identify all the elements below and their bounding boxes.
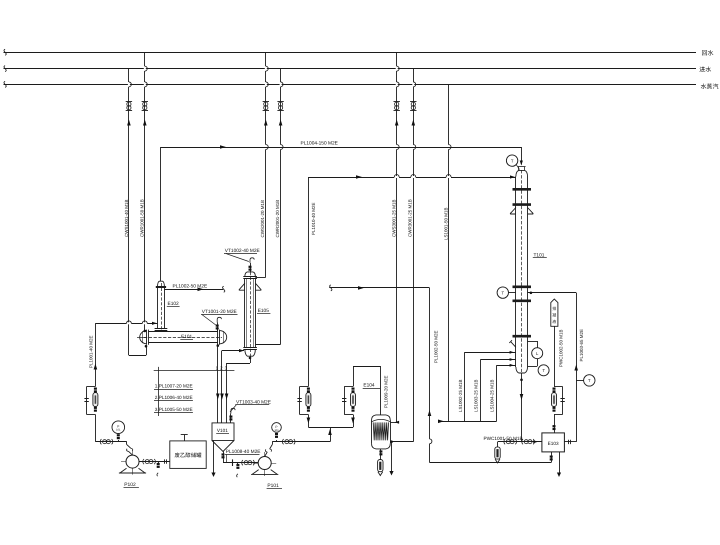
E102 top dome — [158, 281, 165, 287]
temperature instrument TI on PL1003 — [576, 380, 583, 382]
flow arrow into E103 — [533, 440, 538, 443]
steam riser LS1002 — [464, 352, 466, 421]
flow arrow feed line — [356, 175, 362, 179]
vessel V101 body — [212, 423, 234, 441]
svg-text:PL1001-40 M2E: PL1001-40 M2E — [89, 335, 94, 368]
pipe line 3 from E105 bottom — [226, 363, 228, 423]
svg-text:液: 液 — [552, 319, 556, 324]
V101 side drain to grade — [213, 441, 215, 475]
svg-text:E104: E104 — [363, 383, 375, 389]
pipe PL1002 drop x=429.5 — [429, 288, 431, 463]
rotameter FI on PL1009 — [353, 415, 355, 428]
T101 bottom dome — [516, 367, 528, 373]
svg-text:T: T — [588, 378, 591, 383]
flow arrow PL1003 up — [574, 365, 578, 371]
T101 bottoms line — [521, 373, 523, 441]
E104 top dome — [372, 415, 391, 421]
line CWR2001 drop, x=280.6 — [280, 69, 282, 345]
utility header: cooling water return (to right label) — [4, 52, 697, 54]
svg-text:LS1002-25 M1B: LS1002-25 M1B — [458, 379, 463, 412]
valve on P102 discharge — [100, 439, 101, 444]
pipe line 2 from E105 feed tee — [221, 351, 223, 423]
steam riser LS1003 — [480, 360, 482, 422]
rotameter header y=427.3 — [308, 427, 353, 429]
valve on P101 suction — [242, 460, 243, 465]
svg-text:CWS1001-40 M1B: CWS1001-40 M1B — [124, 199, 129, 237]
P101 discharge flexible riser — [265, 445, 273, 457]
svg-text:LS1001-50 M1B: LS1001-50 M1B — [443, 207, 448, 240]
svg-text:CWR2001-20 M1B: CWR2001-20 M1B — [275, 200, 280, 238]
pipe P102 discharge run y=441.7 — [95, 441, 126, 443]
pipe P102 suction from tank — [139, 461, 170, 463]
pipe line 1 from E101 right head bottom — [217, 344, 220, 347]
pipe PWC1002 riser to flag — [554, 326, 556, 386]
rotameter FI on PWC1002 — [554, 386, 563, 388]
heat exchanger E101 shell — [148, 331, 218, 333]
pump P102 — [121, 461, 144, 463]
svg-text:CWR3001-25 M1B: CWR3001-25 M1B — [408, 199, 413, 237]
svg-text:CWS3001-25 M1B: CWS3001-25 M1B — [392, 199, 397, 237]
T101 top dome and neck — [516, 170, 528, 176]
coupling on VT1002 stub — [249, 266, 252, 268]
heat exchanger E105 shell — [244, 278, 246, 347]
riser to rotameter header — [330, 427, 332, 441]
flow arrows into V101 — [216, 394, 220, 400]
node CWR1001 to E101 left head top nozzle — [144, 330, 147, 333]
pipe P101 discharge run y=441.7 — [272, 441, 330, 443]
pipe E101 outlet to E105 bottom entry y=350.6 — [222, 350, 244, 352]
svg-text:排: 排 — [552, 306, 556, 311]
flow arrow PL1004 — [220, 145, 226, 149]
svg-text:P102: P102 — [124, 482, 136, 488]
flow arrow PL1001 up — [94, 364, 98, 370]
flow arrow PL1002 — [198, 288, 204, 292]
svg-text:CWS2001-20 M1B: CWS2001-20 M1B — [260, 200, 265, 238]
pipe PL1002 from E102 top side, y=289.3 — [164, 289, 223, 291]
vent VT1001 gooseneck on E101 right — [217, 323, 219, 332]
svg-text:PWC1001-50 M1B: PWC1001-50 M1B — [484, 436, 523, 441]
pipe CWR2001 from E105 lower side nozzle — [255, 344, 280, 346]
utility header: cooling water supply — [4, 68, 697, 70]
E104 bottom trap leg — [380, 449, 382, 460]
node drain tee at E104 outlet — [390, 440, 393, 443]
pressure gauge on P102 discharge — [112, 421, 125, 434]
flow arrow feed entering column — [510, 175, 515, 178]
line CWR3001 drop, x=413.3 — [413, 69, 415, 442]
pipe CWS1001 under-run to E101 left head bottom nozzle — [129, 355, 146, 357]
svg-text:回水: 回水 — [702, 49, 714, 57]
svg-text:LS1003-25 M1B: LS1003-25 M1B — [474, 379, 479, 412]
label leader line for numbered lines — [154, 370, 235, 372]
pipe PL1004 horizontal run y=147 — [161, 147, 521, 149]
drain leg with steam trap — [497, 442, 499, 447]
pipe PL1002 bottom run to E103 — [430, 462, 552, 464]
T101 side vent nozzle upper left — [509, 340, 516, 347]
vapor line PL1003 drop to E103 — [576, 293, 578, 442]
flow arrow PL1002 segment — [358, 286, 364, 290]
flow arrow into column top — [520, 161, 523, 166]
pipe P101 suction run y=462.7 — [223, 462, 258, 464]
P102 discharge flexible riser — [127, 445, 133, 456]
valve PWC1001 left — [504, 439, 505, 444]
pipe E105 bottom outlet run to line 3 — [227, 363, 250, 365]
svg-text:PL1003-65 M2E: PL1003-65 M2E — [579, 329, 584, 362]
svg-text:PL1004-150 M2E: PL1004-150 M2E — [301, 140, 338, 146]
svg-text:LS1004-25 M1B: LS1004-25 M1B — [490, 379, 495, 412]
pipe PL1004 riser from E102 top, x=160.9 — [160, 147, 162, 278]
valve on P101 discharge — [282, 439, 283, 444]
heat exchanger E103 box — [542, 433, 565, 452]
T101 support lugs — [510, 208, 516, 215]
E105 bottom flange — [243, 347, 257, 349]
svg-text:2.PL1006-40 M2E: 2.PL1006-40 M2E — [155, 395, 193, 400]
E104 bottom dome — [372, 443, 391, 449]
vent VT1003 gooseneck on V101 top — [230, 414, 232, 423]
destination flag 排凝液 — [551, 299, 558, 326]
pump P101 — [253, 463, 276, 465]
heat exchanger E102 shell — [157, 287, 159, 328]
pipe PL1003 takeoff right side y=292.8 — [528, 292, 577, 294]
E104 internal coil — [373, 422, 388, 440]
E103 bottom riser — [551, 452, 553, 463]
svg-text:PWC1002-50 M1B: PWC1002-50 M1B — [558, 329, 563, 367]
valve PWC1001 right — [522, 439, 523, 444]
E101 right channel head — [220, 331, 227, 344]
pipe PL1009 over to E104 — [353, 366, 381, 368]
E105 top flange — [243, 276, 257, 278]
pressure gauge on P101 discharge — [272, 423, 282, 433]
V101 cone bottom — [212, 441, 234, 452]
vent VT1002 gooseneck on E105 top — [250, 263, 252, 272]
V101 bottom outlet with coupling — [223, 452, 225, 463]
E101 left tube-sheet flange — [146, 330, 148, 345]
steam riser LS1004 — [496, 365, 498, 421]
svg-text:VT1002-40 M2E: VT1002-40 M2E — [225, 248, 260, 254]
line CWS1001 drop from supply header, x=128.9 — [128, 69, 130, 356]
suction drain stub — [158, 462, 160, 464]
heat exchanger E104 shell — [371, 421, 373, 444]
svg-text:T: T — [502, 290, 505, 295]
svg-text:3.PL1005-50 M2E: 3.PL1005-50 M2E — [155, 407, 193, 412]
temperature instrument TI at column bottom — [538, 365, 549, 376]
E101 right tube-sheet flange — [217, 330, 219, 345]
E102 top flange — [156, 286, 166, 288]
pipe PL1004 drop into T101 top — [521, 147, 523, 165]
pipe PL1001 horizontal run y=323.3 — [95, 323, 157, 325]
level instrument LI — [532, 348, 543, 359]
line CWR1001 drop from return header, x=144.8 — [144, 52, 146, 330]
tank 废乙醇储罐 — [170, 441, 206, 469]
utility header: steam — [4, 84, 697, 86]
svg-text:PL1002-50 M2E: PL1002-50 M2E — [173, 283, 208, 289]
temperature instrument TI upper section — [497, 287, 508, 298]
svg-text:PL1008-40 M2E: PL1008-40 M2E — [226, 449, 261, 455]
rotameter FI on PL1010 — [308, 415, 310, 428]
svg-text:水蒸汽: 水蒸汽 — [701, 83, 719, 91]
CWS3001 into E104 upper nozzle — [390, 422, 396, 424]
svg-text:PL1002-50 M2E: PL1002-50 M2E — [434, 330, 439, 363]
pipe feed horizontal run y=177 to column — [308, 177, 516, 179]
svg-text:PL1010-40 M2E: PL1010-40 M2E — [311, 202, 316, 235]
flange on suction — [232, 459, 234, 466]
CWR3001 from E104 lower nozzle — [390, 441, 413, 443]
pipe break symbol PL1002 segment end — [223, 286, 225, 292]
E102 top nozzle stub — [160, 278, 162, 282]
flow arrow PL1002 up — [428, 410, 432, 416]
flange pair on suction — [164, 459, 166, 463]
svg-text:T: T — [511, 158, 514, 163]
E105 top dome — [245, 272, 255, 276]
E105 bottom dome — [245, 349, 255, 356]
pipe PWC1001 run y=441.7 — [498, 441, 542, 443]
E103 top connection with flanges — [554, 415, 556, 433]
pipe PL1010 riser x=308.4 — [308, 177, 310, 387]
svg-text:凝: 凝 — [552, 313, 556, 318]
line CWS3001 drop, x=396.7 — [396, 52, 398, 422]
svg-text:T: T — [542, 368, 545, 373]
T101 flange bands — [513, 188, 532, 191]
svg-text:E103: E103 — [548, 441, 559, 446]
steam distribution header y=421.3 — [439, 421, 497, 423]
pipe CWS2001 into E105 upper side nozzle — [255, 277, 265, 279]
E104 drain to grade — [391, 442, 393, 472]
svg-text:废乙醇储罐: 废乙醇储罐 — [175, 452, 203, 459]
E105 bottom outlet nozzle — [249, 357, 252, 360]
svg-text:V101: V101 — [217, 428, 228, 433]
svg-text:CWR1001-50 M1B: CWR1001-50 M1B — [140, 199, 145, 237]
E103 right side connection — [564, 441, 576, 443]
svg-text:1.PL1007-20 M2E: 1.PL1007-20 M2E — [155, 384, 193, 389]
flow arrow into E102 bottom side — [152, 322, 157, 325]
svg-text:PL1009-20 M2E: PL1009-20 M2E — [383, 375, 388, 408]
svg-text:进水: 进水 — [699, 66, 711, 74]
svg-text:E101: E101 — [181, 334, 193, 340]
line CWS2001 drop, x=265.8 — [265, 52, 267, 277]
suction drain stub — [237, 463, 239, 465]
tank vent — [184, 435, 186, 441]
E103 bottom drain — [559, 452, 561, 474]
temperature instrument TI at column top — [506, 155, 517, 166]
E101 left channel head — [140, 331, 147, 344]
pipe PL1002 second segment y=287.9 — [330, 285, 332, 291]
rotameter FI on PL1001 — [87, 386, 96, 388]
steam inlet nozzles left wall — [465, 352, 516, 354]
level gauge loop right side — [528, 341, 538, 343]
valve on P102 suction — [143, 459, 144, 464]
pipe PL1001 riser x=95.4 — [95, 415, 97, 442]
column T101 shell — [515, 177, 517, 368]
svg-text:VT1001-20 M2E: VT1001-20 M2E — [202, 309, 237, 315]
line LS1001 steam drop, x=448.6 — [448, 84, 450, 421]
E102 bottom flange on E101 — [155, 328, 168, 330]
E105 support lugs — [239, 283, 245, 290]
svg-text:101: 101 — [116, 429, 121, 432]
svg-text:101: 101 — [274, 429, 279, 432]
steam trap on E104 bottom — [378, 460, 383, 472]
